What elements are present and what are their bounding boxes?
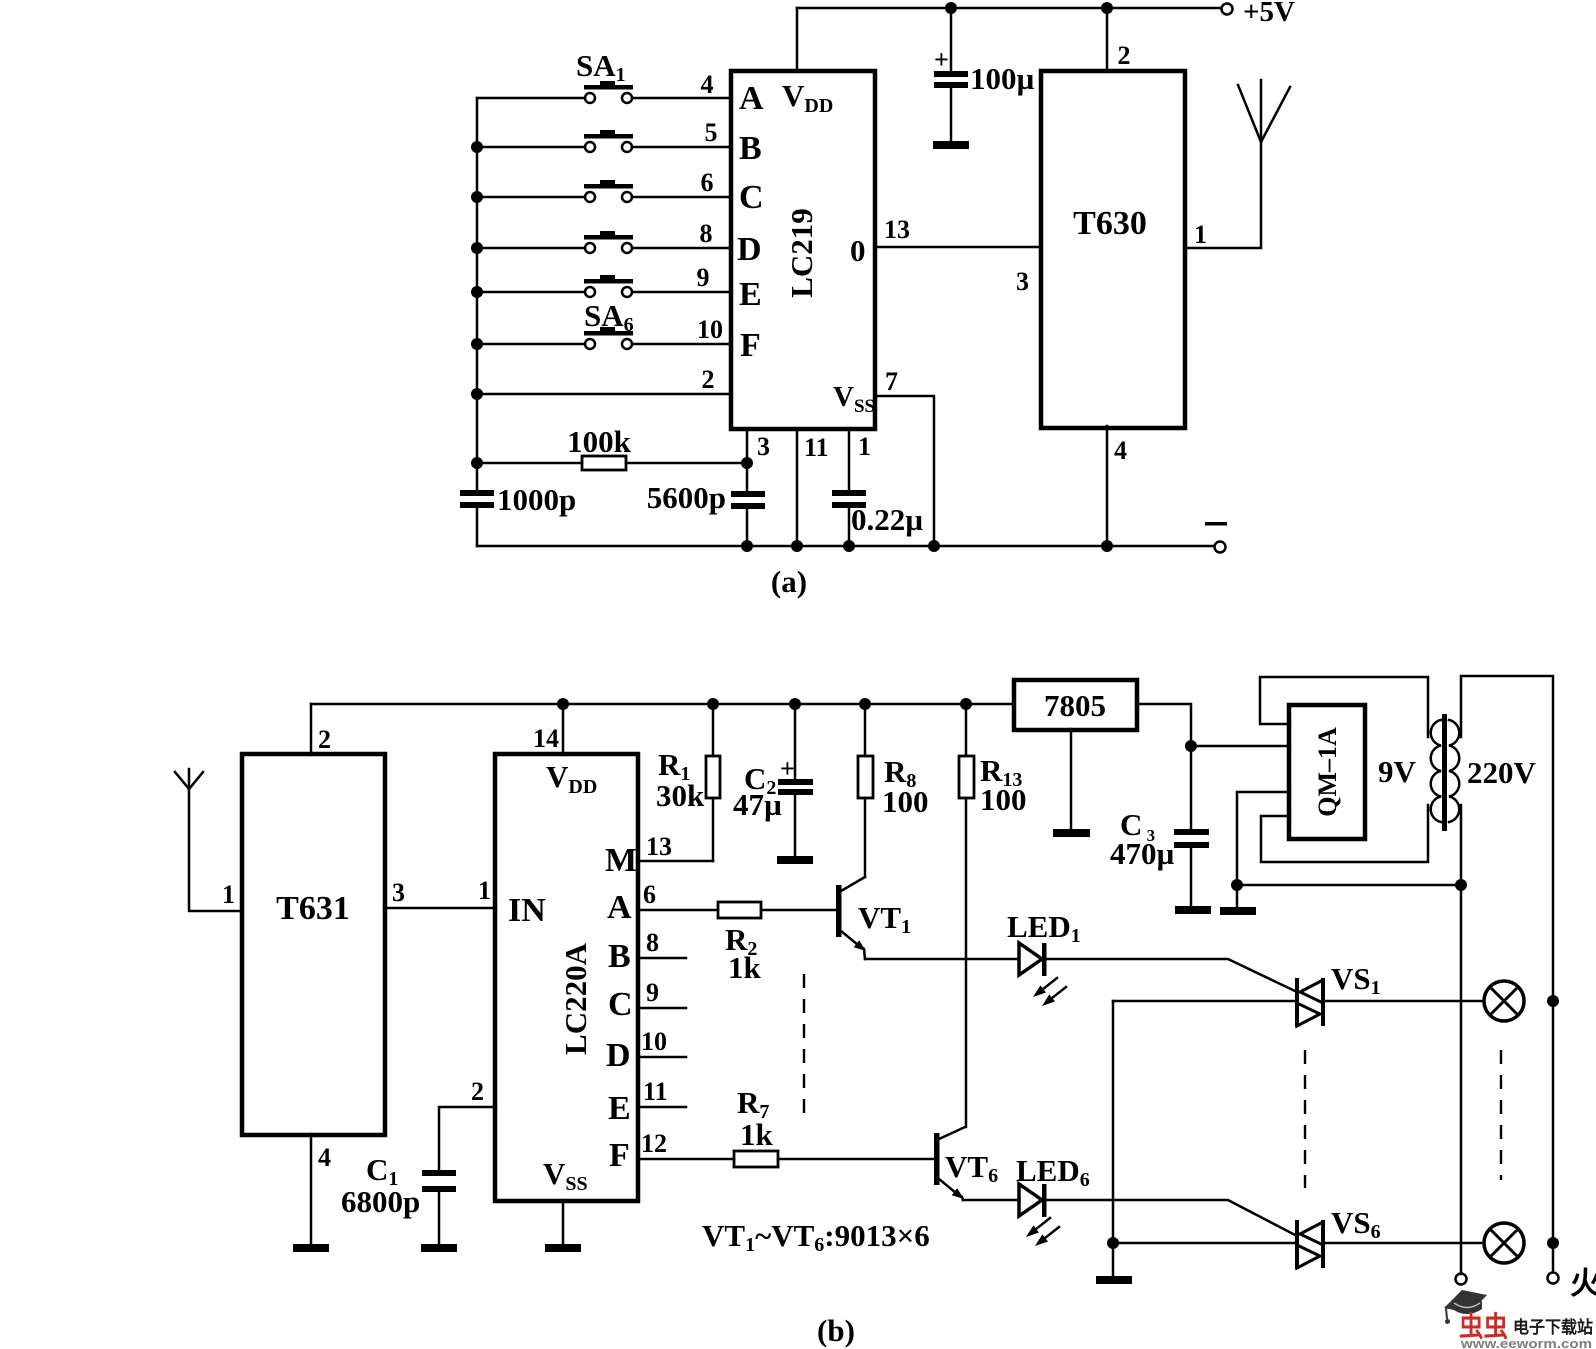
wire VT6 emitter row	[963, 1199, 1019, 1202]
svg-text:5600p: 5600p	[647, 480, 726, 515]
resistor 100k	[477, 424, 747, 470]
antenna (a)	[1238, 85, 1261, 142]
svg-text:T631: T631	[276, 890, 350, 927]
wire 220V bottom neutral	[1460, 805, 1463, 1274]
svg-text:12: 12	[641, 1129, 667, 1158]
capacitor C2 47u	[733, 704, 813, 856]
LED LED1	[1007, 909, 1081, 1006]
svg-text:470µ: 470µ	[1110, 836, 1175, 871]
wire +5V top rail	[797, 7, 1221, 10]
svg-text:D: D	[606, 1037, 631, 1074]
capacitor 1000p	[460, 482, 576, 517]
capacitor C3 470u	[1110, 807, 1209, 906]
svg-text:+5V: +5V	[1243, 0, 1295, 28]
svg-text:1k: 1k	[728, 950, 762, 985]
switch SA3 row C pin 6	[477, 168, 731, 202]
wire QM bottom loop to transformer	[1261, 805, 1428, 862]
node bus pin2	[471, 388, 483, 400]
terminal +5V	[1222, 4, 1233, 15]
wire VS cathode bus vertical	[1112, 1001, 1115, 1276]
node pin3 junction	[741, 457, 753, 469]
ground C2	[777, 856, 813, 864]
node 7805 C3 QM	[1185, 740, 1197, 752]
wire bottom rail (a)	[477, 545, 1214, 548]
wire VDD riser LC219	[796, 8, 799, 71]
svg-text:100: 100	[882, 784, 929, 819]
svg-text:F: F	[609, 1137, 630, 1174]
resistor R8 100	[858, 704, 929, 877]
dashed omitted channels lamps	[1500, 1050, 1502, 1180]
transistor Q VT1	[836, 877, 911, 959]
module QM-1A	[1289, 705, 1365, 839]
resistor R13 100	[959, 704, 1027, 1127]
svg-text:9: 9	[646, 978, 659, 1007]
svg-text:220V: 220V	[1467, 755, 1537, 790]
wire T631 pin3 to IN	[384, 907, 496, 910]
terminal live	[1548, 1273, 1559, 1284]
node neutral return	[1455, 879, 1467, 891]
node bus B	[471, 141, 483, 153]
svg-text:100: 100	[980, 782, 1027, 817]
capacitor 0.22u	[832, 493, 923, 546]
svg-text:11: 11	[804, 433, 829, 462]
wire 7805 out	[1136, 704, 1191, 829]
node rail pin14	[557, 698, 569, 710]
wire LC219 pin 7 VSS	[876, 396, 934, 546]
wire D pin10 stub	[637, 1056, 686, 1059]
svg-text:T630: T630	[1073, 205, 1147, 242]
wire neutral to QM ground node	[1237, 884, 1461, 887]
wire top rail (b)	[311, 703, 1013, 706]
ground C1	[421, 1244, 457, 1252]
node rail pin11	[791, 540, 803, 552]
switch SA5 row E pin 9	[477, 263, 731, 297]
svg-text:IN: IN	[508, 892, 546, 929]
svg-text:电子下载站: 电子下载站	[1513, 1317, 1593, 1337]
svg-text:F: F	[740, 327, 761, 364]
node rail-100u	[945, 2, 957, 14]
resistor R7 1k	[734, 1085, 934, 1167]
svg-text:2: 2	[471, 1077, 484, 1106]
svg-text:C: C	[608, 986, 633, 1023]
wire QM power	[1191, 745, 1290, 748]
svg-text:3: 3	[757, 432, 770, 461]
svg-text:QM–1A: QM–1A	[1313, 727, 1342, 817]
svg-text:13: 13	[646, 832, 672, 861]
lamp HL1	[1484, 981, 1524, 1021]
svg-text:1: 1	[858, 432, 871, 461]
svg-text:2: 2	[702, 365, 715, 394]
wire T631 pin2	[310, 704, 313, 755]
wire T631 pin4	[310, 1134, 313, 1244]
svg-text:30k: 30k	[656, 778, 705, 813]
ground 100u	[933, 141, 969, 149]
node bus D	[471, 242, 483, 254]
svg-text:100k: 100k	[567, 424, 632, 459]
svg-text:+: +	[780, 754, 795, 783]
svg-text:(b): (b)	[817, 1313, 855, 1348]
svg-text:8: 8	[646, 928, 659, 957]
svg-text:1: 1	[222, 880, 235, 909]
svg-text:6800p: 6800p	[341, 1184, 420, 1219]
svg-text:13: 13	[884, 215, 910, 244]
triac VS1	[1113, 961, 1484, 1027]
wire LC219 pin 11	[796, 429, 799, 546]
node rail-T630pin2	[1101, 2, 1113, 14]
wire VT1 emitter row	[865, 958, 1019, 961]
watermark logo cap	[1444, 1290, 1487, 1324]
wire LC220A pin2	[439, 1107, 496, 1170]
svg-text:B: B	[608, 938, 631, 975]
wire 220V top to live bus	[1461, 676, 1553, 1001]
svg-text:100µ: 100µ	[970, 61, 1035, 96]
svg-text:3: 3	[1016, 267, 1029, 296]
triac VS6	[1113, 1205, 1484, 1269]
svg-text:9V: 9V	[1378, 754, 1417, 789]
node rail R8	[859, 698, 871, 710]
node rail T630pin4	[1101, 540, 1113, 552]
node rail R1	[707, 698, 719, 710]
ground C3	[1175, 906, 1211, 914]
wire LC219 pin 1	[848, 429, 851, 490]
svg-text:9: 9	[697, 263, 710, 292]
wire M pin13	[637, 860, 713, 863]
svg-text:M: M	[605, 842, 637, 879]
wire T630 pin2	[1106, 8, 1109, 71]
node lamp1 live	[1547, 995, 1559, 1007]
transformer T primary 9V winding	[1431, 720, 1441, 822]
LED LED6	[1016, 1153, 1090, 1246]
svg-text:0.22µ: 0.22µ	[851, 502, 923, 537]
svg-text:1000p: 1000p	[497, 482, 576, 517]
svg-text:LED1: LED1	[1007, 909, 1081, 947]
svg-text:1: 1	[478, 876, 491, 905]
node QM gnd	[1231, 879, 1243, 891]
svg-text:8: 8	[700, 219, 713, 248]
resistor R2 1k	[718, 902, 836, 985]
wire T630 pin1 to antenna	[1187, 80, 1261, 248]
svg-text:1k: 1k	[740, 1117, 774, 1152]
wire LC220A pin14	[562, 704, 565, 755]
svg-text:1: 1	[1194, 220, 1207, 249]
svg-text:E: E	[608, 1090, 631, 1127]
svg-text:2: 2	[1118, 41, 1131, 70]
wire F pin12	[637, 1158, 734, 1161]
svg-text:C: C	[739, 179, 764, 216]
transformer core	[1442, 714, 1447, 831]
svg-text:LED6: LED6	[1016, 1153, 1090, 1191]
dashed omitted channels VS	[1304, 1050, 1306, 1188]
ground 7805	[1053, 829, 1090, 837]
svg-text:3: 3	[392, 878, 405, 907]
capacitor 5600p	[647, 480, 765, 546]
wire T630 pin4	[1106, 426, 1109, 546]
svg-text:6: 6	[643, 880, 656, 909]
node bus F	[471, 338, 483, 350]
switch SA1 row A pin 4	[477, 48, 731, 103]
ground LC220A	[545, 1244, 581, 1252]
capacitor C 100u	[934, 8, 1035, 141]
node bus C	[471, 191, 483, 203]
node rail 0.22u	[843, 540, 855, 552]
svg-text:4: 4	[701, 70, 714, 99]
node lamp6 live	[1547, 1237, 1559, 1249]
svg-text:7: 7	[885, 367, 898, 396]
wire E pin11 stub	[637, 1106, 686, 1109]
svg-text:5: 5	[705, 118, 718, 147]
svg-text:47µ: 47µ	[733, 787, 782, 822]
wire QM pin top loop to transformer	[1260, 677, 1428, 737]
node rail 5600p	[741, 540, 753, 552]
capacitor C1 6800p	[341, 1152, 456, 1244]
node rail R13	[960, 698, 972, 710]
IC U5 7805	[1014, 680, 1137, 730]
terminal minus	[1215, 542, 1226, 553]
svg-text:A: A	[607, 889, 632, 926]
svg-text:10: 10	[697, 315, 723, 344]
switch SA4 row D pin 8	[477, 219, 731, 253]
transformer secondary 220V winding	[1449, 720, 1459, 822]
svg-text:LC220A: LC220A	[558, 942, 593, 1055]
wire pin 2 row	[477, 393, 731, 396]
svg-text:10: 10	[641, 1027, 667, 1056]
dashed omitted channels VT	[803, 974, 805, 1113]
svg-text:B: B	[739, 130, 762, 167]
antenna (b)	[175, 769, 241, 911]
node rail vss	[928, 540, 940, 552]
svg-text:火: 火	[1570, 1266, 1596, 1301]
wire LC219 O pin13 to T630 pin3	[876, 246, 1039, 249]
wire A pin6	[637, 909, 718, 912]
wire LC219 pin 3	[746, 429, 749, 491]
svg-text:www.eeworm.com: www.eeworm.com	[1460, 1336, 1592, 1349]
wire 7805 gnd	[1070, 729, 1073, 829]
switch SA2 row B pin 5	[477, 118, 731, 152]
wire B pin8 stub	[637, 957, 686, 960]
ground T631	[293, 1244, 329, 1252]
wire LED6 to VS6 gate	[1047, 1200, 1297, 1236]
resistor R1 30k	[656, 704, 720, 861]
svg-text:11: 11	[643, 1077, 668, 1106]
terminal neutral	[1456, 1274, 1467, 1285]
wire QM gnd	[1237, 792, 1290, 907]
wire C pin9 stub	[637, 1007, 686, 1010]
IC U4 LC220A	[495, 754, 638, 1201]
IC U1 LC219	[731, 71, 875, 429]
svg-text:6: 6	[701, 168, 714, 197]
svg-text:0: 0	[850, 233, 866, 268]
switch SA6 row F pin 10	[477, 298, 731, 349]
svg-text:14: 14	[533, 724, 559, 753]
ground QM	[1220, 907, 1256, 915]
wire LED1 to VS1 gate	[1047, 959, 1297, 992]
svg-text:7805: 7805	[1044, 688, 1106, 723]
svg-text:4: 4	[318, 1143, 331, 1172]
transistor Q VT6	[934, 1127, 998, 1200]
node bus 100k	[471, 457, 483, 469]
svg-text:(a): (a)	[771, 564, 807, 599]
ground VS bus	[1096, 1276, 1132, 1284]
svg-text:+: +	[934, 45, 949, 74]
svg-text:LC219: LC219	[784, 208, 819, 298]
wire LC220A vss pin	[562, 1200, 565, 1244]
IC U3 T631	[242, 754, 385, 1135]
wire bus left vertical	[476, 98, 479, 490]
svg-text:2: 2	[318, 725, 331, 754]
svg-text:4: 4	[1114, 436, 1127, 465]
wire live bus lower	[1552, 1001, 1555, 1243]
node bus E	[471, 286, 483, 298]
IC U2 T630	[1041, 71, 1185, 428]
svg-text:D: D	[737, 231, 762, 268]
svg-text:A: A	[739, 80, 764, 117]
lamp HL6	[1484, 1223, 1524, 1263]
svg-text:E: E	[739, 276, 762, 313]
node VS6 tap	[1107, 1237, 1119, 1249]
node rail C2	[789, 698, 801, 710]
